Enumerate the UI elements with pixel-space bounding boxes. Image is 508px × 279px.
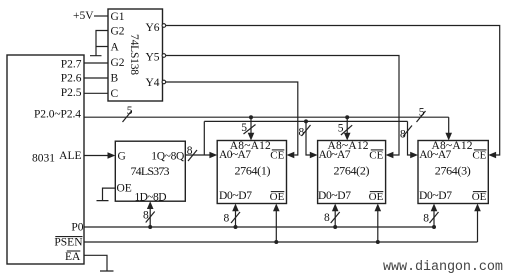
arrowhead into D0~D7 of 2764(2) <box>332 204 339 212</box>
bus slash 5 at 2764(3) <box>417 111 426 122</box>
decoder 74LS138 box <box>108 9 163 101</box>
svg-text:ALE: ALE <box>59 150 81 162</box>
ground tie G2,A of 74LS138 <box>90 31 108 56</box>
svg-text:+5V: +5V <box>73 10 94 22</box>
svg-text:P2.5: P2.5 <box>61 87 82 99</box>
svg-text:5: 5 <box>338 123 344 135</box>
svg-text:EA: EA <box>65 251 81 263</box>
svg-text:OE: OE <box>270 191 285 203</box>
node A8 drop 2764(2) <box>345 115 349 119</box>
wire A8~A12 drop into 2764(2) <box>346 117 348 133</box>
node P0 at latch riser <box>148 225 152 229</box>
svg-text:2764(2): 2764(2) <box>334 164 370 178</box>
wire PSEN riser into 2764(2) OE <box>377 211 379 242</box>
svg-text:D0~D7: D0~D7 <box>318 190 351 202</box>
svg-text:74LS138: 74LS138 <box>128 34 140 75</box>
node P0 at 2764(1) riser <box>234 225 238 229</box>
output bubble Y6 <box>162 24 166 28</box>
bus slash 8 at 2764(2) A0 <box>302 125 311 136</box>
wire PSEN riser into 2764(3) OE <box>477 211 479 242</box>
node P0 at 2764(2) riser <box>333 225 337 229</box>
bus slash 8 at 2764(1) data <box>231 212 240 223</box>
output bubble Y4 <box>162 80 166 84</box>
wire ALE to G <box>84 155 108 157</box>
svg-text:Y4: Y4 <box>145 77 159 89</box>
svg-text:G2: G2 <box>111 26 125 38</box>
svg-text:Y5: Y5 <box>145 52 159 64</box>
svg-text:OE: OE <box>369 191 384 203</box>
bus slash 5 at 2764(1) <box>244 125 256 135</box>
svg-text:A0~A7: A0~A7 <box>419 149 451 161</box>
svg-text:C: C <box>111 88 119 100</box>
bus slash 5 at 2764(2) <box>341 125 352 135</box>
wire PSEN rail <box>84 241 478 243</box>
wire data riser into 2764(3) D0~D7 <box>433 211 435 227</box>
wire P0 data bus rail <box>84 226 434 228</box>
node A8 drop 2764(1) <box>249 115 253 119</box>
svg-text:P2.7: P2.7 <box>61 59 82 71</box>
svg-text:8: 8 <box>299 127 305 139</box>
arrowhead into CE of 2764(3) <box>488 152 496 159</box>
svg-text:5: 5 <box>127 105 133 117</box>
output bubble Y5 <box>162 54 166 58</box>
svg-text:OE: OE <box>117 183 132 195</box>
svg-text:CE: CE <box>369 149 383 161</box>
arrowhead into OE of 2764(2) <box>375 204 382 212</box>
svg-text:8031: 8031 <box>32 153 55 165</box>
arrowhead into A0~A7 of 2764(1) <box>209 152 217 159</box>
wire Y4 to CE of 2764(1) <box>166 82 298 155</box>
MCU 8031 box <box>7 55 84 264</box>
latch 74LS373 box <box>115 141 185 201</box>
svg-text:1Q~8Q: 1Q~8Q <box>151 151 185 163</box>
arrowhead into CE of 2764(1) <box>287 152 295 159</box>
wire A0~A7 drop into 2764(3) <box>408 121 411 155</box>
svg-text:Y6: Y6 <box>145 22 159 34</box>
bus slash 5 near 8031 <box>123 111 132 122</box>
svg-text:8: 8 <box>324 212 330 224</box>
wire Y5 to CE of 2764(2) <box>166 56 399 156</box>
wire P2.0~P2.4 address bus rail <box>84 116 449 118</box>
wire data riser into 2764(1) D0~D7 <box>235 211 237 227</box>
svg-text:P0: P0 <box>71 221 83 233</box>
svg-text:CE: CE <box>472 149 486 161</box>
svg-text:OE: OE <box>472 191 487 203</box>
arrowhead into OE of 2764(1) <box>273 204 280 212</box>
bus slash 8 at 2764(3) data <box>430 212 439 223</box>
svg-text:CE: CE <box>270 149 284 161</box>
EPROM 2764(1) box <box>217 141 286 204</box>
bus slash 8 at 2764(3) A0 <box>403 126 412 137</box>
node A0 drop 2764(2) <box>304 119 308 123</box>
bus slash 8 at latch data <box>146 212 155 223</box>
wire A8~A12 drop into 2764(3) <box>448 117 450 133</box>
svg-text:P2.6: P2.6 <box>61 72 82 84</box>
svg-text:B: B <box>111 73 119 85</box>
EPROM 2764(3) box <box>418 141 488 204</box>
svg-text:8: 8 <box>224 212 230 224</box>
node P0 at 2764(3) riser <box>432 225 436 229</box>
svg-text:P2.0~P2.4: P2.0~P2.4 <box>34 108 81 120</box>
svg-text:8: 8 <box>400 129 406 141</box>
svg-text:G1: G1 <box>111 11 125 23</box>
svg-text:74LS373: 74LS373 <box>131 164 170 178</box>
bus slash 8 at 2764(1) A0 <box>188 150 197 161</box>
wire A0 rail riser from latch output <box>203 121 205 155</box>
svg-text:8: 8 <box>423 212 429 224</box>
wire 1Q~8Q to A0~A7 of 2764(1) <box>185 154 209 156</box>
EPROM 2764(2) box <box>318 141 386 204</box>
node PSEN at 2764(1) riser <box>274 240 278 244</box>
node PSEN at 2764(2) riser <box>376 240 380 244</box>
wire PSEN riser into 2764(1) OE <box>275 211 277 242</box>
wire P2.7 to G2 <box>84 62 108 64</box>
svg-text:1D~8D: 1D~8D <box>135 192 167 204</box>
svg-text:PSEN: PSEN <box>54 237 83 249</box>
wire Y6 to CE of 2764(3) <box>166 26 500 156</box>
svg-text:5: 5 <box>419 106 425 118</box>
svg-text:A: A <box>111 42 120 54</box>
arrowhead into D0~D7 of 2764(1) <box>232 204 239 212</box>
svg-text:D0~D7: D0~D7 <box>219 190 252 202</box>
arrowhead into A8~A12 of 2764(1) <box>248 133 255 141</box>
svg-text:A0~A7: A0~A7 <box>319 149 351 161</box>
wire P2.5 to C <box>84 92 108 94</box>
arrowhead into A8~A12 of 2764(3) <box>445 133 452 141</box>
wire A0~A7 drop into 2764(2) <box>306 121 310 155</box>
wire EA to ground <box>84 255 114 271</box>
wire OE of latch to ground <box>97 188 116 201</box>
wire P2.6 to B <box>84 77 108 79</box>
arrowhead into A8~A12 of 2764(2) <box>344 133 351 141</box>
svg-text:2764(1): 2764(1) <box>235 164 271 178</box>
wire data riser into 74LS373 1D~8D <box>149 209 151 227</box>
svg-text:www.diangon.com: www.diangon.com <box>383 260 503 275</box>
arrowhead into A0~A7 of 2764(3) <box>410 152 418 159</box>
svg-text:A0~A7: A0~A7 <box>219 149 251 161</box>
svg-text:8: 8 <box>187 145 193 157</box>
svg-text:8: 8 <box>143 209 149 221</box>
arrowhead into G of latch <box>108 152 116 159</box>
arrowhead into 1D~8D of latch <box>147 201 154 209</box>
svg-text:5: 5 <box>241 122 247 134</box>
svg-text:G: G <box>118 151 126 163</box>
arrowhead into A0~A7 of 2764(2) <box>310 152 318 159</box>
arrowhead into D0~D7 of 2764(3) <box>431 204 438 212</box>
arrowhead into CE of 2764(2) <box>386 152 394 159</box>
wire +5V to G1 <box>94 15 108 17</box>
wire A0~A7 rail <box>204 120 407 122</box>
svg-text:D0~D7: D0~D7 <box>419 190 452 202</box>
arrowhead into OE of 2764(3) <box>474 204 481 212</box>
svg-text:G2: G2 <box>111 57 125 69</box>
svg-text:2764(3): 2764(3) <box>435 164 471 178</box>
bus slash 8 at 2764(2) data <box>331 212 340 223</box>
wire data riser into 2764(2) D0~D7 <box>334 211 336 227</box>
wire A8~A12 drop into 2764(1) <box>250 117 252 133</box>
